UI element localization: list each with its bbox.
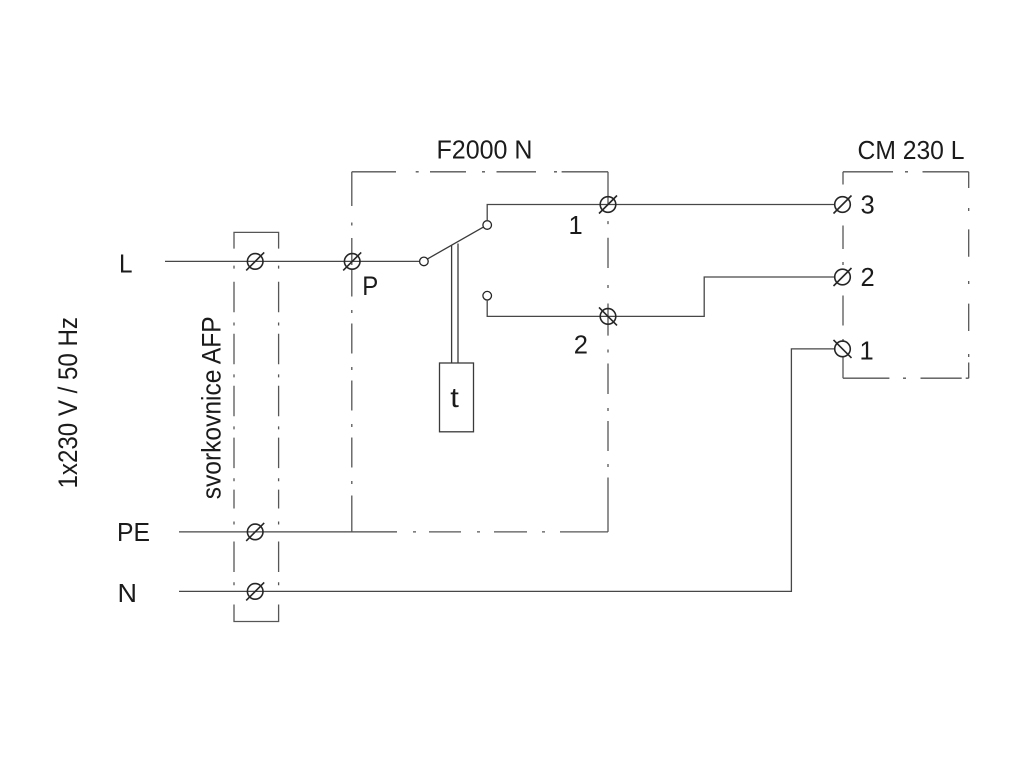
top edge bbox=[843, 171, 969, 173]
terminal AFP-PE bbox=[246, 523, 264, 541]
top edge bbox=[352, 171, 608, 173]
svg-text:L: L bbox=[119, 249, 133, 279]
box svorkovnice AFP bbox=[234, 232, 279, 621]
box F2000 N bbox=[352, 172, 608, 532]
svg-text:PE: PE bbox=[117, 517, 150, 547]
box CM 230 L bbox=[843, 172, 969, 378]
terminal F2000-1 bbox=[599, 196, 617, 214]
terminal AFP-L bbox=[246, 252, 264, 270]
left edge bbox=[351, 172, 353, 532]
svg-text:1: 1 bbox=[860, 337, 874, 365]
bottom edge bbox=[843, 377, 969, 379]
svg-text:2: 2 bbox=[861, 264, 875, 292]
thermostat t box bbox=[440, 363, 474, 432]
svg-text:1x230 V / 50 Hz: 1x230 V / 50 Hz bbox=[53, 317, 83, 489]
thermostat capillary bbox=[452, 244, 458, 364]
right edge bbox=[968, 172, 970, 378]
bottom edge bbox=[413, 531, 608, 533]
terminal CM-1 bbox=[834, 340, 852, 358]
terminal CM-2 bbox=[834, 268, 852, 286]
svg-text:3: 3 bbox=[861, 192, 875, 220]
wire contact2 to CM2 bbox=[487, 277, 835, 316]
terminal P bbox=[343, 252, 361, 270]
svg-text:N: N bbox=[118, 578, 138, 608]
switch arm bbox=[428, 227, 484, 259]
left edge bbox=[842, 172, 844, 378]
terminal AFP-N bbox=[246, 582, 264, 600]
switch pivot bbox=[420, 257, 429, 266]
svg-text:2: 2 bbox=[574, 332, 588, 360]
svg-text:svorkovnice AFP: svorkovnice AFP bbox=[197, 316, 227, 499]
svg-text:P: P bbox=[362, 271, 378, 301]
wire L bbox=[165, 260, 420, 262]
svg-text:CM 230 L: CM 230 L bbox=[858, 135, 965, 165]
switch contact bottom bbox=[483, 291, 492, 300]
svg-text:t: t bbox=[450, 382, 459, 413]
svg-text:F2000 N: F2000 N bbox=[437, 135, 533, 165]
terminal CM-3 bbox=[834, 196, 852, 214]
right edge bbox=[607, 172, 609, 532]
terminal F2000-2 bbox=[599, 307, 617, 325]
wire PE bbox=[179, 531, 397, 533]
wire N bbox=[179, 349, 835, 592]
switch contact top bbox=[483, 221, 492, 230]
svg-text:1: 1 bbox=[569, 212, 583, 240]
wire contact1 to CM3 bbox=[487, 205, 835, 221]
